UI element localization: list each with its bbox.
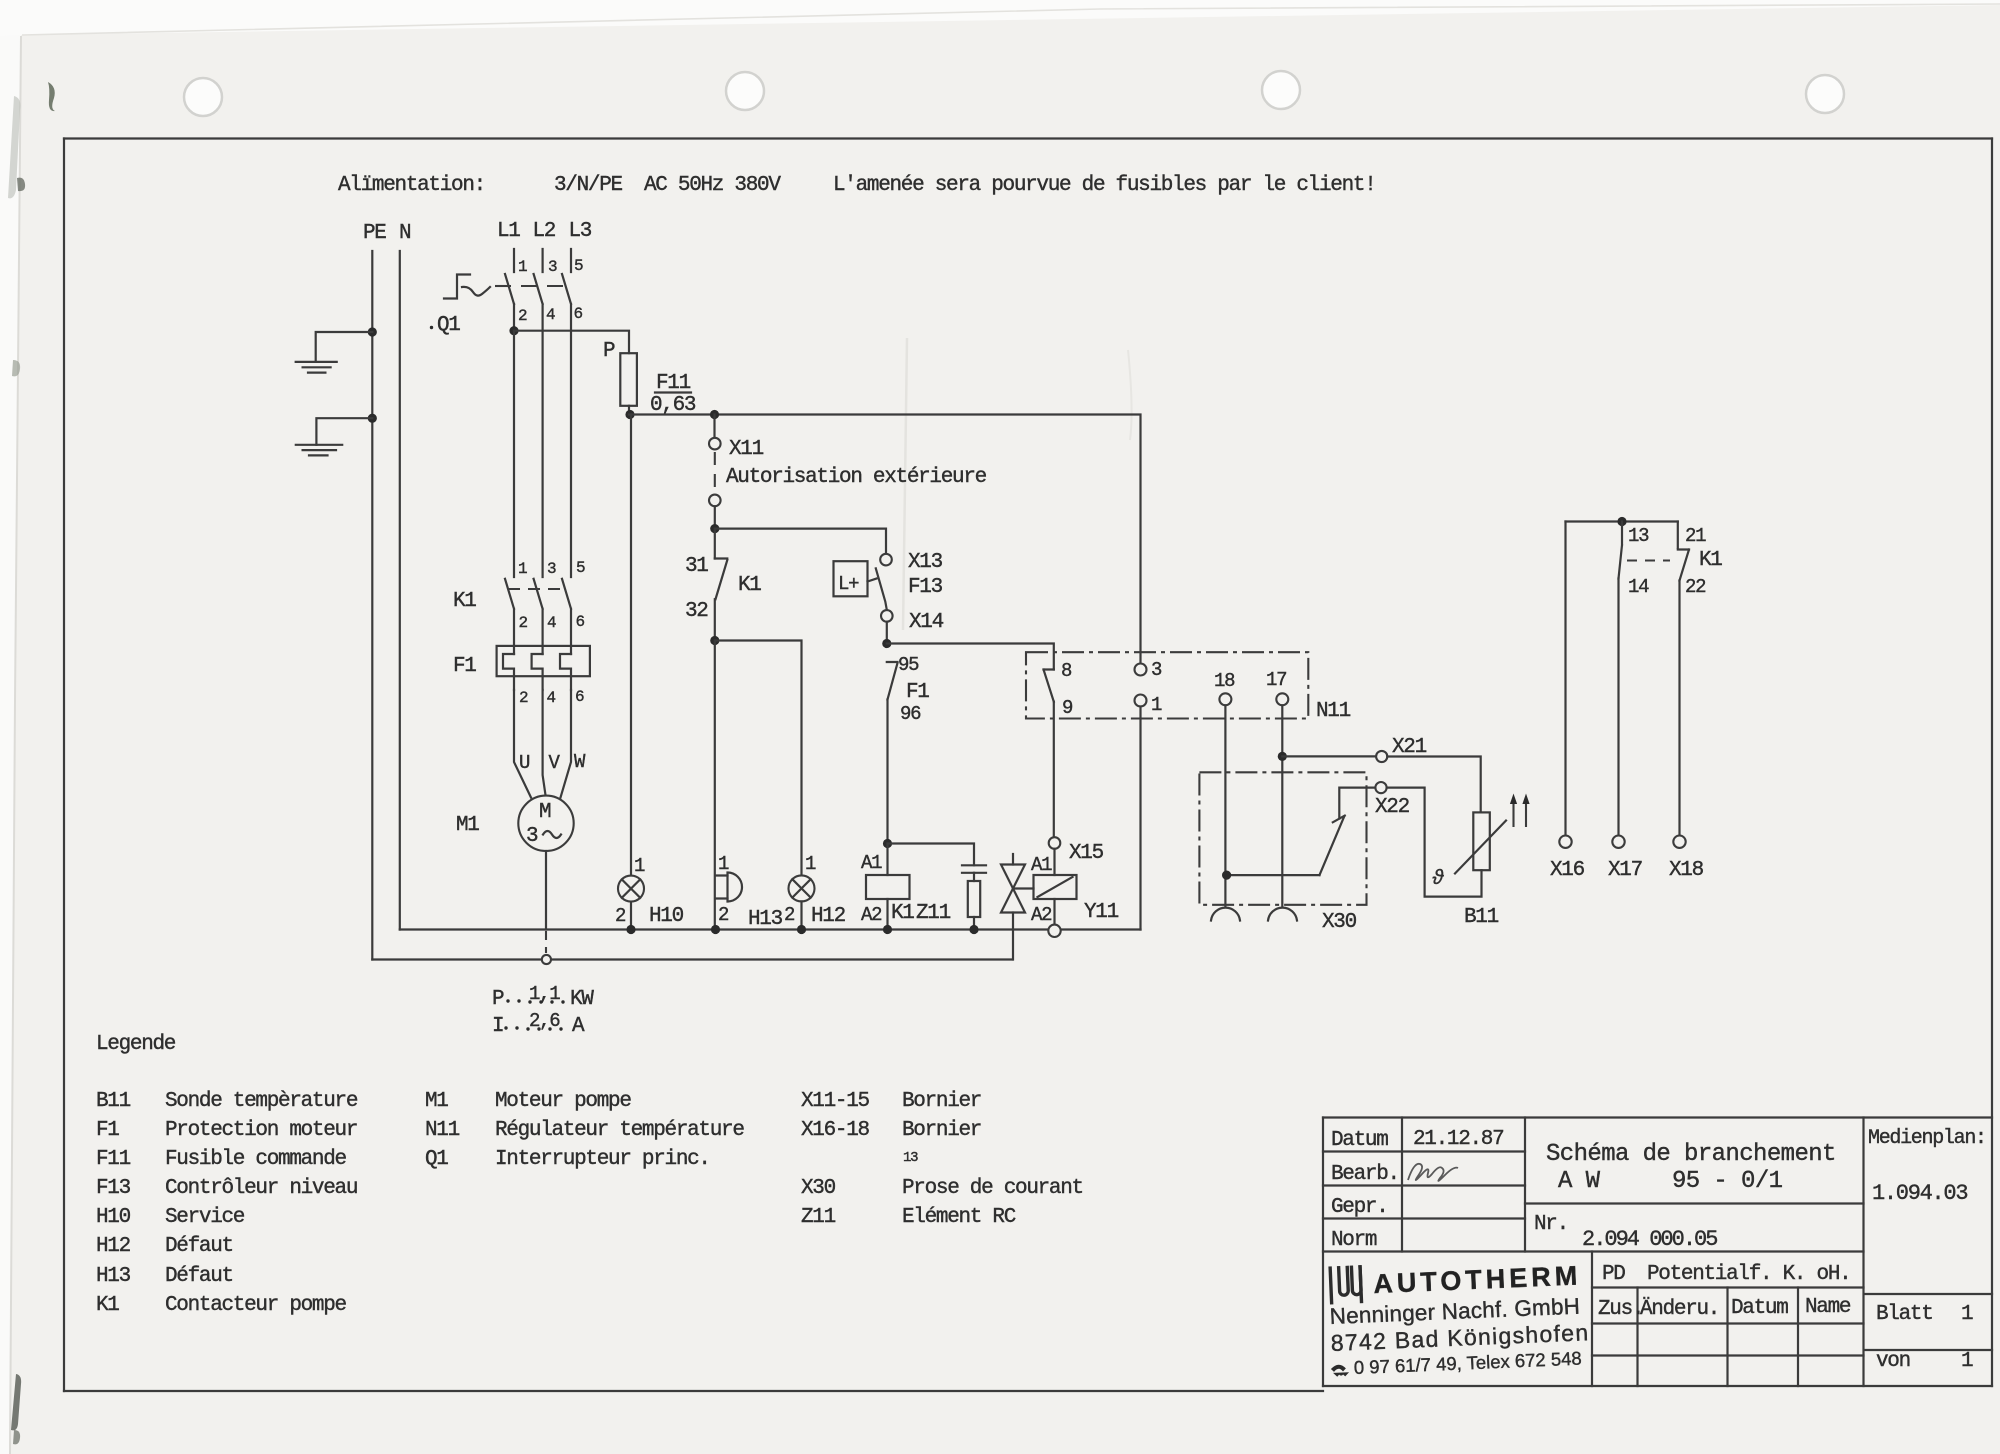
svg-text:2: 2 — [784, 904, 795, 926]
svg-text:K1: K1 — [96, 1294, 119, 1317]
node above K1 coil — [883, 839, 892, 848]
svg-text:F1: F1 — [96, 1119, 119, 1142]
punch hole 4 — [1806, 75, 1844, 113]
terminal N11 18 — [1219, 693, 1231, 705]
terminal X14 — [881, 610, 893, 622]
svg-text:1: 1 — [634, 855, 645, 877]
svg-text:X16: X16 — [1550, 859, 1585, 882]
svg-text:Bornier: Bornier — [902, 1119, 981, 1142]
svg-text:3: 3 — [1151, 659, 1162, 681]
svg-text:F1: F1 — [906, 681, 929, 704]
svg-text:X30: X30 — [1322, 911, 1357, 934]
RC element Z11 — [888, 844, 987, 930]
svg-text:H13: H13 — [96, 1265, 131, 1288]
svg-text:A2: A2 — [1031, 904, 1052, 926]
punch hole 1 — [184, 78, 222, 116]
svg-text:H13: H13 — [748, 908, 783, 931]
svg-text:Défaut: Défaut — [165, 1235, 233, 1258]
svg-text:Datum: Datum — [1331, 1129, 1388, 1152]
svg-text:H10: H10 — [649, 905, 684, 928]
svg-text:X15: X15 — [1069, 842, 1104, 865]
svg-text:M1: M1 — [456, 814, 479, 837]
svg-text:4: 4 — [546, 306, 555, 324]
svg-text:A1: A1 — [861, 852, 882, 874]
svg-text:Norm: Norm — [1331, 1229, 1377, 1252]
svg-text:Régulateur température: Régulateur température — [495, 1119, 744, 1142]
wire H12 feed — [715, 641, 802, 876]
svg-text:Bornier: Bornier — [902, 1090, 981, 1113]
svg-text:Z11: Z11 — [916, 902, 951, 925]
svg-text:Y11: Y11 — [1084, 901, 1119, 924]
svg-text:M1: M1 — [425, 1090, 448, 1113]
rating note P I — [492, 983, 594, 1038]
legend column 2 — [425, 1090, 744, 1171]
svg-text:X11: X11 — [729, 438, 764, 461]
horn H13 — [716, 853, 783, 931]
svg-text:X11-15: X11-15 — [801, 1090, 870, 1113]
svg-text:H10: H10 — [96, 1206, 131, 1229]
svg-text:18: 18 — [1214, 670, 1235, 692]
svg-text:K1: K1 — [453, 590, 476, 613]
svg-text:13: 13 — [1628, 525, 1649, 547]
svg-text:21.12.87: 21.12.87 — [1413, 1128, 1503, 1151]
contact K1 31-32 — [685, 529, 761, 641]
svg-text:L'amenée sera pourvue de fusib: L'amenée sera pourvue de fusibles par le… — [833, 174, 1376, 197]
svg-text:X18: X18 — [1669, 859, 1704, 882]
terminal X12 — [709, 495, 721, 507]
wire N vertical — [399, 251, 401, 930]
autotherm wordmark — [1327, 1260, 1591, 1379]
terminal X21 — [1376, 751, 1387, 762]
legend column 3 — [801, 1090, 1083, 1229]
svg-text:PE: PE — [363, 222, 386, 245]
svg-text:1: 1 — [518, 560, 527, 578]
svg-text:95: 95 — [898, 654, 919, 676]
svg-text:Name: Name — [1805, 1296, 1851, 1319]
svg-text:2: 2 — [519, 689, 528, 707]
wire L1 to fuse branch — [513, 304, 515, 331]
svg-text:5: 5 — [574, 257, 583, 275]
lamp H10 — [615, 855, 684, 930]
autotherm logo — [1330, 1265, 1361, 1304]
svg-text:Nr.: Nr. — [1534, 1213, 1568, 1236]
wire H10 feed — [630, 415, 632, 876]
svg-text:L2: L2 — [533, 220, 556, 243]
svg-text:X14: X14 — [909, 611, 944, 634]
svg-text:3: 3 — [526, 825, 538, 848]
svg-text:Z11: Z11 — [801, 1206, 836, 1229]
junction dots on N bus — [626, 925, 635, 934]
svg-text:Contacteur pompe: Contacteur pompe — [165, 1294, 347, 1317]
terminal X13 — [880, 554, 892, 566]
node below X12 — [710, 524, 719, 533]
svg-text:95 - 0/1: 95 - 0/1 — [1672, 1168, 1783, 1195]
svg-text:Fusible commande: Fusible commande — [165, 1148, 347, 1171]
svg-text:von: von — [1876, 1350, 1910, 1373]
wire X22 to B11 return — [1387, 788, 1482, 897]
screen cup on wire 18 — [1211, 908, 1240, 921]
svg-text:2: 2 — [718, 904, 729, 926]
svg-text:ϑ: ϑ — [1432, 868, 1444, 891]
svg-text:1: 1 — [1961, 1303, 1973, 1326]
signature scribble — [1408, 1164, 1458, 1181]
svg-text:9: 9 — [1062, 697, 1073, 719]
svg-text:2,6: 2,6 — [529, 1010, 560, 1032]
wire to X21 — [1282, 755, 1376, 757]
svg-text:96: 96 — [900, 703, 921, 725]
svg-text:Moteur pompe: Moteur pompe — [495, 1090, 631, 1113]
regulator N11 dash-dot box — [1026, 652, 1308, 718]
wire N11 18 down — [1224, 705, 1226, 906]
svg-text:U: U — [519, 752, 530, 774]
svg-text:1: 1 — [718, 853, 729, 875]
svg-text:1: 1 — [1961, 1350, 1973, 1373]
svg-text:F13: F13 — [908, 576, 943, 599]
svg-text:H12: H12 — [811, 905, 846, 928]
svg-text:Sonde tempèrature: Sonde tempèrature — [165, 1090, 358, 1113]
terminal X17 — [1612, 836, 1624, 848]
svg-text:L3: L3 — [569, 220, 592, 243]
svg-text:14: 14 — [1628, 576, 1649, 598]
coil K1 — [861, 844, 914, 930]
node below X14 — [882, 639, 891, 648]
svg-text:B11: B11 — [96, 1090, 131, 1113]
svg-text:8: 8 — [1061, 660, 1072, 682]
svg-text:X17: X17 — [1608, 859, 1642, 882]
terminal N11 1 — [1135, 695, 1147, 707]
switch Q1 — [430, 249, 583, 577]
svg-text:Autorisation extérieure: Autorisation extérieure — [726, 466, 987, 489]
contactor K1 main contacts — [453, 559, 585, 654]
svg-text:M: M — [539, 801, 551, 824]
wire N11 1 to bus — [1139, 707, 1141, 930]
phone icon — [1331, 1364, 1349, 1377]
node on wire 17 — [1278, 752, 1287, 761]
solenoid valve Y11 — [1001, 854, 1119, 960]
svg-text:3: 3 — [548, 258, 557, 276]
wire X21 to B11 — [1387, 757, 1480, 813]
svg-text:X22: X22 — [1375, 796, 1410, 819]
svg-text:P: P — [492, 988, 504, 1011]
sensor B11 — [1432, 812, 1506, 929]
svg-text:17: 17 — [1266, 669, 1286, 691]
svg-text:Défaut: Défaut — [165, 1265, 233, 1288]
svg-text:21: 21 — [1685, 525, 1706, 547]
wire H13 feed — [714, 641, 716, 930]
svg-text:K1: K1 — [738, 574, 761, 597]
terminal X22 — [1375, 782, 1386, 793]
terminal X15 — [1053, 702, 1055, 837]
svg-text:N11: N11 — [425, 1119, 460, 1142]
svg-text:Schéma de branchement: Schéma de branchement — [1546, 1141, 1836, 1168]
svg-text:N: N — [399, 222, 410, 245]
contact F1 95-96 — [887, 654, 930, 844]
svg-text:K1: K1 — [1699, 549, 1722, 572]
wire Y11 coil to bus — [1053, 899, 1055, 924]
svg-text:Legende: Legende — [96, 1033, 176, 1056]
svg-text:X13: X13 — [908, 551, 943, 574]
lamp H12 — [784, 853, 846, 930]
svg-text:2: 2 — [615, 905, 626, 927]
svg-text:L1: L1 — [497, 220, 520, 243]
svg-text:A2: A2 — [861, 904, 882, 926]
wire X22 into X30 — [1339, 788, 1375, 819]
wire dashed external authorization — [714, 452, 716, 494]
motor M1 — [456, 690, 586, 964]
contact K1 13-14 21-22 — [1566, 517, 1723, 836]
svg-text:4: 4 — [547, 614, 556, 632]
svg-text:6: 6 — [575, 688, 584, 706]
svg-text:2: 2 — [519, 614, 528, 632]
svg-text:K1: K1 — [891, 902, 914, 925]
svg-text:A1: A1 — [1031, 854, 1052, 876]
svg-text:Contrôleur niveau: Contrôleur niveau — [165, 1177, 357, 1200]
svg-text:F11: F11 — [96, 1148, 131, 1171]
svg-text:F13: F13 — [96, 1177, 131, 1200]
socket X30 dash-dot box — [1199, 772, 1366, 905]
terminal N11 17 — [1276, 693, 1288, 705]
svg-text:Blatt: Blatt — [1876, 1303, 1933, 1326]
svg-text:P: P — [603, 340, 615, 363]
title block grid — [1323, 1118, 1992, 1387]
svg-text:6: 6 — [576, 613, 585, 631]
overload relay F1 — [453, 646, 590, 707]
wire N11 17 down — [1281, 705, 1283, 906]
svg-text:1: 1 — [518, 258, 527, 276]
svg-text:PD: PD — [1602, 1263, 1625, 1286]
svg-text:X30: X30 — [801, 1177, 836, 1200]
svg-text:Änderu.: Änderu. — [1640, 1298, 1719, 1321]
svg-text:3/N/PE: 3/N/PE — [554, 174, 623, 197]
svg-text:X16-18: X16-18 — [801, 1119, 870, 1142]
wire L1 down to contactor — [513, 331, 515, 577]
legend column 1 — [96, 1090, 358, 1317]
punch hole 2 — [726, 72, 764, 110]
wire N return bus — [400, 928, 1141, 930]
svg-text:I: I — [492, 1015, 503, 1038]
ground symbol upper — [296, 327, 377, 372]
svg-text:Service: Service — [165, 1206, 245, 1229]
svg-text:A: A — [572, 1015, 585, 1038]
svg-text:Interrupteur princ.: Interrupteur princ. — [495, 1148, 710, 1171]
svg-text:L+: L+ — [838, 573, 859, 595]
svg-text:Gepr.: Gepr. — [1331, 1196, 1388, 1219]
svg-text:Q1: Q1 — [437, 314, 460, 337]
svg-text:Bearb.: Bearb. — [1331, 1163, 1399, 1186]
punch hole 3 — [1262, 71, 1300, 109]
svg-text:Zus.: Zus. — [1598, 1298, 1643, 1321]
contact N11 8-9 — [1044, 660, 1074, 719]
svg-text:F1: F1 — [453, 655, 476, 678]
svg-text:13: 13 — [903, 1150, 918, 1166]
svg-text:1.094.03: 1.094.03 — [1872, 1181, 1967, 1206]
svg-text:H12: H12 — [96, 1235, 131, 1258]
svg-text:Q1: Q1 — [425, 1148, 448, 1171]
svg-text:KW: KW — [570, 988, 594, 1011]
terminal X16 — [1564, 522, 1566, 836]
svg-text:AC 50Hz 380V: AC 50Hz 380V — [644, 174, 781, 197]
svg-text:A W: A W — [1558, 1168, 1601, 1195]
svg-text:31: 31 — [685, 555, 708, 578]
level controller F13 — [834, 561, 943, 610]
svg-text:4: 4 — [547, 689, 556, 707]
svg-text:Potentialf. K. oH.: Potentialf. K. oH. — [1647, 1263, 1850, 1286]
svg-text:2: 2 — [518, 307, 527, 325]
wire PE bottom line — [372, 958, 1012, 960]
terminal X18 — [1673, 836, 1685, 848]
svg-text:1: 1 — [805, 853, 816, 875]
fuse F11 — [603, 340, 696, 417]
svg-text:32: 32 — [685, 600, 708, 623]
ground symbol lower — [296, 414, 377, 456]
svg-text:Elément RC: Elément RC — [902, 1206, 1016, 1229]
svg-text:3: 3 — [547, 560, 556, 578]
svg-text:N11: N11 — [1316, 700, 1351, 723]
node below K1 32 — [710, 636, 719, 645]
svg-text:22: 22 — [1685, 576, 1706, 598]
wire PE vertical — [371, 251, 373, 960]
screen cup on wire 17 — [1268, 908, 1297, 921]
svg-text:1,1: 1,1 — [529, 983, 560, 1005]
svg-text:Alïmentation:: Alïmentation: — [338, 174, 485, 197]
svg-text:2.094 000.05: 2.094 000.05 — [1582, 1227, 1717, 1252]
svg-text:6: 6 — [574, 305, 583, 323]
svg-text:B11: B11 — [1464, 906, 1499, 929]
wire X14 to N11 contact — [887, 644, 1054, 670]
terminal X11 — [710, 410, 719, 419]
terminal N11 3 — [1135, 664, 1147, 676]
svg-text:Medienplan:: Medienplan: — [1868, 1127, 1986, 1150]
svg-text:Prose de courant: Prose de courant — [902, 1177, 1083, 1200]
contact inside X30 — [1320, 816, 1345, 876]
svg-text:Datum: Datum — [1731, 1297, 1788, 1320]
svg-text:5: 5 — [576, 559, 585, 577]
terminal open circle on bus — [1048, 925, 1060, 937]
arrows heating indicator — [1510, 794, 1530, 828]
control bus from F11 — [625, 410, 634, 419]
svg-text:1: 1 — [1151, 694, 1162, 716]
svg-text:Protection moteur: Protection moteur — [165, 1119, 357, 1142]
